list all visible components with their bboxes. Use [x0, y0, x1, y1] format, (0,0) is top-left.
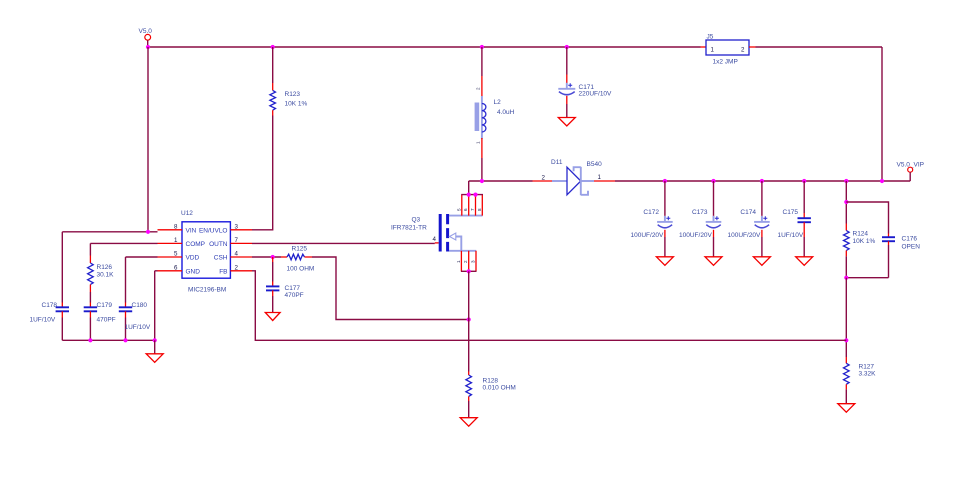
svg-text:4: 4 — [433, 236, 437, 243]
node junction C180 gnd — [123, 338, 127, 342]
pin 8 VIN — [158, 223, 183, 230]
svg-text:C174: C174 — [740, 209, 756, 216]
transistor Q3 IFR7821-TR — [391, 195, 483, 272]
resistor R125 100 OHM — [281, 246, 314, 273]
capacitor C177 470PF — [266, 257, 304, 313]
svg-text:C179: C179 — [97, 302, 113, 309]
wire C176 branch top — [846, 202, 888, 234]
svg-text:EN/UVLO: EN/UVLO — [199, 227, 228, 234]
node junction R123 top — [271, 45, 275, 49]
svg-text:100 OHM: 100 OHM — [287, 266, 315, 273]
svg-text:V5.0: V5.0 — [139, 28, 153, 35]
node junction loop bottom — [844, 276, 848, 280]
pin 1 COMP — [158, 237, 183, 244]
node junction drain bar b — [473, 193, 477, 197]
svg-text:10K 1%: 10K 1% — [285, 101, 308, 108]
node junction R124 top — [844, 179, 848, 183]
svg-text:100UF/20V: 100UF/20V — [679, 232, 713, 239]
capacitor C178 1UF/10V — [30, 232, 70, 340]
svg-text:OPEN: OPEN — [902, 244, 921, 251]
ground C174 — [753, 257, 770, 266]
svg-text:1x2 JMP: 1x2 JMP — [713, 59, 738, 66]
node junction L2 top — [480, 45, 484, 49]
svg-text:U12: U12 — [181, 210, 193, 217]
svg-text:6: 6 — [463, 208, 468, 211]
ground C171 — [558, 118, 575, 127]
svg-text:1: 1 — [598, 174, 602, 181]
svg-text:Q3: Q3 — [412, 217, 421, 224]
svg-text:470PF: 470PF — [285, 292, 304, 299]
power flag V5.0 — [139, 28, 153, 47]
wire V5.0 top rail left of J5 — [148, 46, 701, 48]
node junction C179 gnd — [88, 338, 92, 342]
svg-text:C175: C175 — [783, 209, 799, 216]
power flag V5.0_VIP — [897, 162, 924, 182]
resistor R127 3.32K — [844, 357, 877, 404]
svg-text:B540: B540 — [587, 161, 603, 168]
svg-text:MIC2196-BM: MIC2196-BM — [188, 287, 226, 294]
wire FB to feedback rail — [252, 271, 846, 341]
op-amp U12 MIC2196-BM body — [181, 210, 230, 294]
svg-text:C177: C177 — [285, 285, 301, 292]
wire VDD row — [126, 257, 158, 303]
node junction C171 top — [565, 45, 569, 49]
svg-text:VIN: VIN — [186, 227, 197, 234]
capacitor C176 OPEN — [882, 234, 920, 278]
wire R124 drop — [845, 181, 847, 224]
svg-text:1UF/10V: 1UF/10V — [30, 317, 56, 324]
svg-text:D11: D11 — [551, 159, 563, 166]
pin 4 CSH — [230, 251, 252, 258]
svg-text:10K 1%: 10K 1% — [853, 238, 876, 245]
wire CSH to junction — [252, 256, 281, 258]
node junction R124/C176 loop top — [844, 200, 848, 204]
node junction VIN/C178 — [146, 230, 150, 234]
svg-text:CSH: CSH — [214, 255, 228, 262]
capacitor C174 100UF/20V — [728, 181, 770, 257]
svg-text:C176: C176 — [902, 236, 918, 243]
pin 5 VDD — [158, 251, 183, 258]
svg-text:220UF/10V: 220UF/10V — [579, 91, 613, 98]
svg-text:3: 3 — [235, 223, 239, 230]
node junction L2 bottom — [480, 179, 484, 183]
wire V5.0 vertical to VIN — [147, 47, 149, 232]
svg-text:1UF/10V: 1UF/10V — [778, 232, 804, 239]
capacitor C175 1UF/10V — [778, 181, 811, 257]
ground R128 — [460, 418, 477, 427]
svg-text:30.1K: 30.1K — [97, 272, 115, 279]
node junction C173 — [711, 179, 715, 183]
wire drain drop — [468, 181, 470, 195]
wire top rail J5 to corner — [756, 46, 883, 48]
diode D11 B540 schottky — [533, 159, 616, 195]
svg-text:470PF: 470PF — [97, 317, 116, 324]
node junction C174 — [760, 179, 764, 183]
capacitor C173 100UF/20V — [679, 181, 721, 257]
resistor R123 10K 1% — [270, 47, 308, 116]
wire switch node rail — [469, 180, 533, 182]
svg-text:3: 3 — [471, 260, 476, 263]
inductor L2 4.0uH — [475, 47, 515, 158]
ground C177 — [265, 313, 280, 321]
pin 2 FB — [230, 264, 252, 271]
resistor R128 0.010 OHM — [466, 372, 516, 418]
wire ground stem — [154, 340, 156, 354]
svg-text:2: 2 — [463, 260, 468, 263]
svg-text:1: 1 — [456, 260, 461, 263]
ground C175 — [796, 257, 813, 266]
svg-text:R125: R125 — [292, 246, 308, 253]
svg-text:C178: C178 — [42, 302, 58, 309]
svg-text:6: 6 — [174, 264, 178, 271]
wire COMP row — [90, 243, 157, 255]
capacitor C172 100UF/20V — [631, 181, 673, 257]
wire output rail — [615, 180, 910, 182]
wire vertical J5 corner down to output rail — [881, 47, 883, 181]
svg-text:1: 1 — [711, 47, 715, 54]
svg-text:OUTN: OUTN — [209, 241, 228, 248]
connector J5 1x2 JMP — [701, 34, 756, 66]
svg-text:COMP: COMP — [186, 241, 206, 248]
svg-text:8: 8 — [477, 208, 482, 211]
ground U12 — [146, 354, 163, 363]
svg-text:C180: C180 — [132, 302, 148, 309]
resistor R124 10K 1% — [844, 224, 876, 278]
svg-text:L2: L2 — [494, 99, 502, 106]
node junction source bar — [467, 269, 471, 273]
capacitor C179 470PF — [84, 302, 116, 340]
svg-text:4.0uH: 4.0uH — [497, 109, 515, 116]
node junction drain bar a — [467, 193, 471, 197]
node junction sense at source — [467, 317, 471, 321]
svg-text:7: 7 — [470, 208, 475, 211]
ground R127 — [838, 404, 855, 413]
svg-text:IFR7821-TR: IFR7821-TR — [391, 225, 427, 232]
svg-text:R123: R123 — [285, 91, 301, 98]
pin 6 GND — [158, 264, 183, 271]
wire OUTN to Q3 gate — [252, 242, 435, 244]
svg-text:3.32K: 3.32K — [859, 371, 877, 378]
svg-text:VDD: VDD — [186, 255, 200, 262]
svg-text:1UF/10V: 1UF/10V — [125, 324, 151, 331]
node junction FB rail right end — [844, 338, 848, 342]
wire GND pin to ground rail — [155, 271, 158, 341]
svg-text:GND: GND — [186, 268, 201, 275]
svg-text:R124: R124 — [853, 231, 869, 238]
capacitor C171 220UF/10V — [558, 47, 612, 118]
wire source down — [468, 271, 470, 371]
svg-text:7: 7 — [235, 237, 239, 244]
svg-text:2: 2 — [741, 47, 745, 54]
wire VIN row horizontal — [62, 231, 157, 233]
wire L2 bottom to switch node — [481, 158, 483, 181]
node junction C175 — [802, 179, 806, 183]
node junction GND rail — [153, 338, 157, 342]
pin 3 EN/UVLO — [230, 223, 252, 230]
svg-text:2: 2 — [235, 264, 239, 271]
wire R124 bottom to FB rail — [845, 278, 847, 357]
svg-text:100UF/20V: 100UF/20V — [631, 232, 665, 239]
wire R124/C176 loop bottom — [846, 277, 888, 279]
ground C172 — [656, 257, 673, 266]
pin 7 OUTN — [230, 237, 252, 244]
capacitor C180 1UF/10V — [119, 302, 151, 340]
svg-text:8: 8 — [174, 223, 178, 230]
svg-text:0.010 OHM: 0.010 OHM — [483, 385, 516, 392]
svg-text:1: 1 — [476, 141, 481, 144]
svg-text:R128: R128 — [483, 378, 499, 385]
svg-text:5: 5 — [174, 251, 178, 258]
svg-text:C173: C173 — [692, 209, 708, 216]
svg-text:1: 1 — [174, 237, 178, 244]
node junction CSH/C177 — [271, 255, 275, 259]
node junction J5 drop — [880, 179, 884, 183]
wire R123 to EN/UVLO pin3 — [252, 116, 273, 230]
svg-text:FB: FB — [219, 268, 227, 275]
svg-text:4: 4 — [235, 251, 239, 258]
svg-text:100UF/20V: 100UF/20V — [728, 232, 762, 239]
svg-text:R126: R126 — [97, 264, 113, 271]
svg-text:C172: C172 — [643, 209, 659, 216]
svg-text:R127: R127 — [859, 364, 875, 371]
resistor R126 30.1K — [88, 256, 115, 303]
ground C173 — [705, 257, 722, 266]
node junction V5.0 flag — [146, 45, 150, 49]
svg-text:5: 5 — [456, 208, 461, 211]
svg-text:2: 2 — [476, 87, 481, 90]
node junction C172 — [663, 179, 667, 183]
wire R125 to source sense — [312, 257, 469, 320]
wire left ground rail — [62, 339, 154, 341]
